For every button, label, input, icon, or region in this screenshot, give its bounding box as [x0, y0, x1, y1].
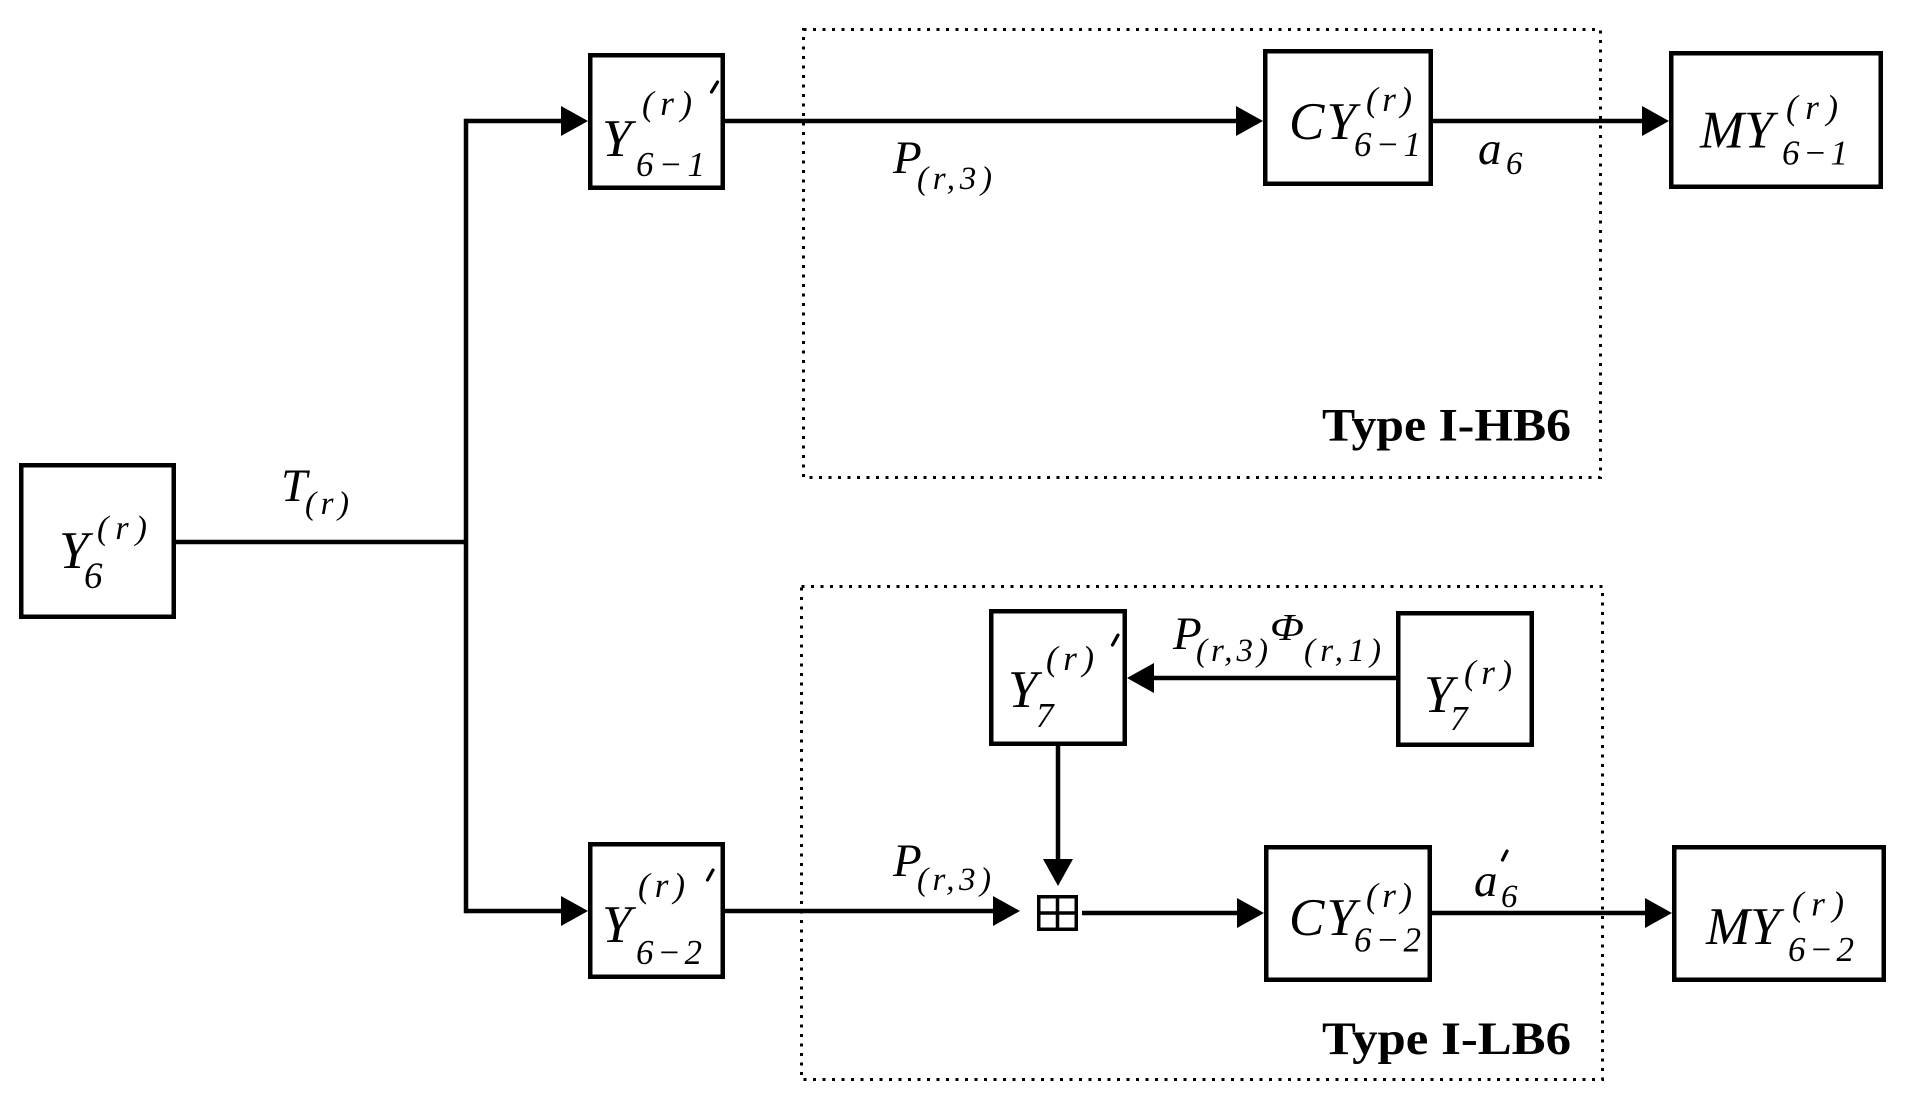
label Y7 [1424, 653, 1512, 738]
label Y6 [59, 510, 147, 597]
wire Y6 to trunk junction [176, 540, 466, 545]
svg-text:Type I-HB6: Type I-HB6 [1322, 400, 1571, 452]
wire trunk to Y6-2 [466, 909, 562, 914]
svg-text:a: a [1474, 855, 1498, 907]
svg-text:(r): (r) [1792, 885, 1844, 924]
svg-text:Type I-LB6: Type I-LB6 [1322, 1013, 1571, 1065]
svg-text:6−1: 6−1 [636, 145, 705, 184]
arrowhead into Y7prime [1127, 663, 1154, 693]
svg-text:(r): (r) [1464, 653, 1512, 692]
block MY6-2 [1674, 847, 1884, 980]
block Y7prime [991, 611, 1125, 744]
svg-text:(r): (r) [642, 84, 692, 123]
block Y6-2 [590, 844, 723, 977]
svg-text:MY: MY [1705, 898, 1785, 956]
arrowhead into Y6-2 [561, 896, 588, 926]
label a6 prime [1474, 855, 1518, 915]
arrowhead into MY6-2 [1645, 898, 1672, 928]
svg-text:7: 7 [1036, 696, 1055, 735]
wire Y6-1 to CY6-1 [725, 119, 1238, 124]
block Y7 [1398, 613, 1532, 745]
svg-text:(r): (r) [1046, 639, 1094, 678]
label a6 [1478, 123, 1523, 182]
svg-text:(r,3): (r,3) [1196, 633, 1268, 669]
svg-text:(r): (r) [305, 486, 349, 522]
dotted box Type I-LB6 [802, 587, 1603, 1080]
svg-text:a: a [1478, 123, 1502, 175]
svg-text:(r): (r) [97, 510, 147, 547]
svg-text:7: 7 [1450, 699, 1469, 738]
wire CY6-2 to MY6-2 [1432, 911, 1646, 916]
svg-text:(r): (r) [1366, 80, 1412, 119]
label MY6-2 [1705, 885, 1854, 970]
block MY6-1 [1671, 53, 1881, 187]
label CY6-1 [1289, 80, 1421, 164]
label MY6-1 [1699, 88, 1848, 173]
svg-text:6−2: 6−2 [1354, 921, 1421, 960]
svg-text:6−1: 6−1 [1354, 125, 1421, 164]
label P(r,3)Phi(r,1) [1172, 607, 1381, 669]
label P(r,3) upper [892, 132, 992, 197]
svg-text:MY: MY [1699, 102, 1779, 160]
wire CY6-1 to MY6-1 [1433, 119, 1643, 124]
svg-text:6: 6 [84, 556, 103, 597]
label T(r) on wire [281, 460, 349, 522]
svg-text:(r): (r) [1786, 88, 1838, 127]
svg-text:6−2: 6−2 [1788, 930, 1854, 969]
prime of a6 [1503, 851, 1508, 860]
block Y6 [21, 465, 174, 617]
label CY6-2 [1289, 876, 1421, 960]
wire Y6-2 to XOR node [725, 909, 994, 914]
prime of Y6-2 [708, 870, 714, 880]
wire Y7 to Y7prime [1154, 676, 1396, 681]
label Y6-2 [602, 866, 702, 972]
arrowhead down into XOR node [1043, 859, 1073, 886]
wire vertical trunk [464, 119, 469, 914]
svg-text:(r): (r) [1366, 876, 1412, 915]
arrowhead into XOR node [993, 896, 1020, 926]
arrowhead into CY6-2 [1237, 898, 1264, 928]
svg-text:6: 6 [1501, 879, 1518, 915]
prime of Y7prime [1113, 635, 1119, 645]
svg-text:6: 6 [1506, 146, 1523, 182]
svg-text:(r): (r) [638, 866, 685, 905]
wire trunk to Y6-1 [466, 119, 562, 124]
wire XOR node to CY6-2 [1082, 911, 1238, 916]
block Y6-1 [590, 55, 723, 188]
wire Y7prime down to XOR node [1056, 746, 1061, 859]
block CY6-1 [1265, 51, 1431, 184]
arrowhead into CY6-1 [1236, 106, 1263, 136]
label Y7prime [1008, 639, 1094, 735]
XOR node boxed plus [1037, 895, 1078, 931]
label P(r,3) lower [892, 835, 991, 898]
dotted box Type I-HB6 [804, 30, 1601, 478]
arrowhead into Y6-1 [561, 106, 588, 136]
prime of Y6-1 [712, 82, 718, 92]
svg-text:Φ: Φ [1270, 607, 1304, 649]
block CY6-2 [1266, 847, 1430, 980]
label Y6-1 [602, 84, 705, 184]
arrowhead into MY6-1 [1642, 106, 1669, 136]
svg-text:6−1: 6−1 [1782, 134, 1848, 173]
svg-text:6−2: 6−2 [636, 933, 702, 972]
